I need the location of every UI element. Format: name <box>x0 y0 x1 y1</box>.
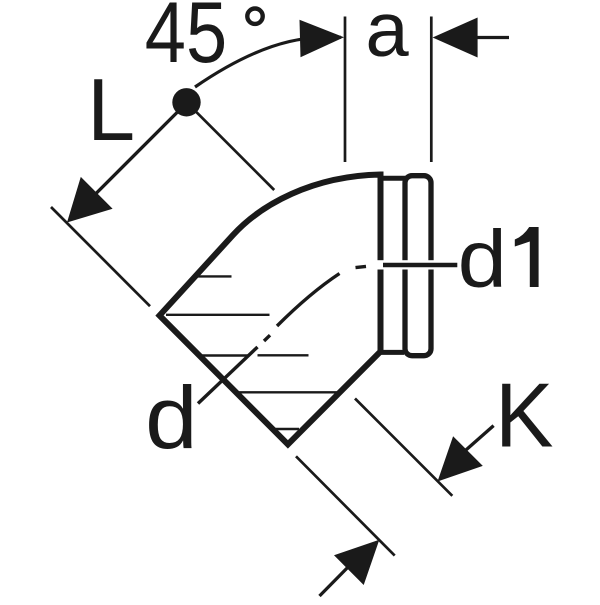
centerline dash 1 (leader from d) <box>198 347 258 404</box>
centerline dot 2 <box>356 266 367 267</box>
svg-text:d: d <box>145 369 198 467</box>
hatch line 1 <box>197 275 232 277</box>
dimension a: right extension line <box>430 17 433 163</box>
degree symbol <box>247 9 262 24</box>
end-face plane extension line lower <box>296 456 395 555</box>
dimension a: left extension line <box>344 17 347 163</box>
vertex point dot <box>172 88 200 116</box>
K dimension tail upper <box>458 426 494 457</box>
socket groove top line <box>381 176 406 181</box>
hatch line 2 <box>166 314 270 316</box>
hatch line 3b <box>258 354 309 356</box>
dimension a: right arrow tail <box>470 36 509 39</box>
socket sealing ring <box>405 176 431 356</box>
dimension L line <box>70 103 187 220</box>
arc arrowhead pointing right <box>300 20 345 58</box>
K dimension tail lower <box>320 560 356 596</box>
svg-text:K: K <box>495 366 554 467</box>
hatch line 4 <box>237 391 340 393</box>
45-degree arc dimension line <box>195 37 341 87</box>
K arrowhead pointing lower-left <box>438 436 483 481</box>
centerline dash 3 / d1 leader <box>383 263 457 268</box>
hatch line 3a <box>202 354 249 356</box>
L extension through vertex point <box>194 110 274 190</box>
K extension line <box>355 399 452 496</box>
L arrowhead pointing lower-left <box>67 177 113 223</box>
K arrowhead pointing upper-right <box>334 540 379 585</box>
dimension a arrowhead pointing left <box>433 18 478 58</box>
centerline dash 2 (bend) <box>277 274 340 327</box>
elbow body outline (45-degree bend fitting) <box>160 175 381 445</box>
centerline dot 1 <box>264 335 270 341</box>
svg-text:a: a <box>365 0 408 73</box>
gap in socket lines for centerline crossing <box>374 260 436 269</box>
end-face plane extension line upper <box>51 207 150 306</box>
svg-text:45: 45 <box>145 0 227 81</box>
svg-text:L: L <box>87 60 135 159</box>
svg-text:d: d <box>458 214 507 304</box>
hatch line 5 <box>274 428 299 430</box>
socket groove bottom line <box>381 350 405 355</box>
